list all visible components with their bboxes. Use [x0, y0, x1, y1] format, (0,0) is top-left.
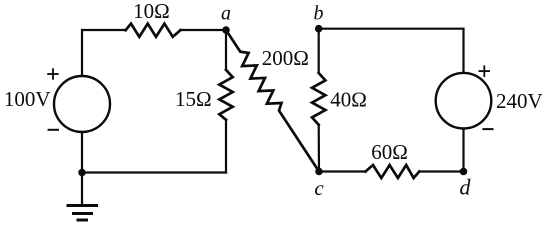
resistor R 40ohm [312, 73, 325, 125]
svg-text:a: a [221, 3, 231, 25]
svg-text:c: c [314, 176, 324, 200]
wire 10-ohm to node a [180, 29, 226, 31]
wire node c to 60-ohm [319, 170, 366, 172]
svg-text:b: b [314, 2, 324, 24]
svg-text:d: d [460, 175, 472, 200]
wire 40-ohm down to node c [318, 125, 320, 172]
svg-text:100V: 100V [4, 87, 51, 111]
node c junction dot [315, 168, 323, 176]
minus sign of V1 [48, 129, 59, 131]
svg-text:15Ω: 15Ω [175, 87, 212, 111]
ground stub [81, 173, 83, 205]
svg-text:10Ω: 10Ω [133, 0, 170, 23]
wire top-left from source to 10-ohm resistor [82, 30, 126, 76]
wire 15-ohm down to bottom rail [225, 120, 227, 173]
bottom rail left loop [82, 171, 226, 173]
node d junction dot [460, 168, 468, 176]
plus sign of V1 [47, 68, 59, 80]
svg-text:60Ω: 60Ω [371, 140, 408, 164]
node a junction dot [222, 26, 230, 34]
wire 60-ohm to node d [419, 170, 463, 172]
voltage source V1 100V circle [54, 76, 110, 132]
wire node a down to 15-ohm [225, 30, 227, 70]
resistor R 10ohm [126, 24, 181, 37]
wire node b down to 40-ohm [318, 29, 320, 73]
wire source bottom to node d [462, 129, 464, 172]
svg-text:240V: 240V [496, 89, 543, 113]
plus sign of V2 [479, 65, 491, 77]
top rail right loop b to source [319, 29, 464, 73]
resistor R 60ohm [366, 165, 420, 178]
node b junction dot [315, 25, 323, 33]
resistor R 200ohm diagonal a to c [226, 30, 319, 172]
ground bars [68, 204, 97, 207]
resistor R 15ohm [219, 70, 232, 120]
wire source bottom to bottom rail [81, 132, 83, 173]
svg-text:200Ω: 200Ω [262, 46, 309, 70]
svg-text:40Ω: 40Ω [330, 88, 367, 112]
minus sign of V2 [482, 128, 493, 130]
ground junction dot [78, 169, 86, 177]
voltage source V2 240V circle [436, 73, 492, 129]
